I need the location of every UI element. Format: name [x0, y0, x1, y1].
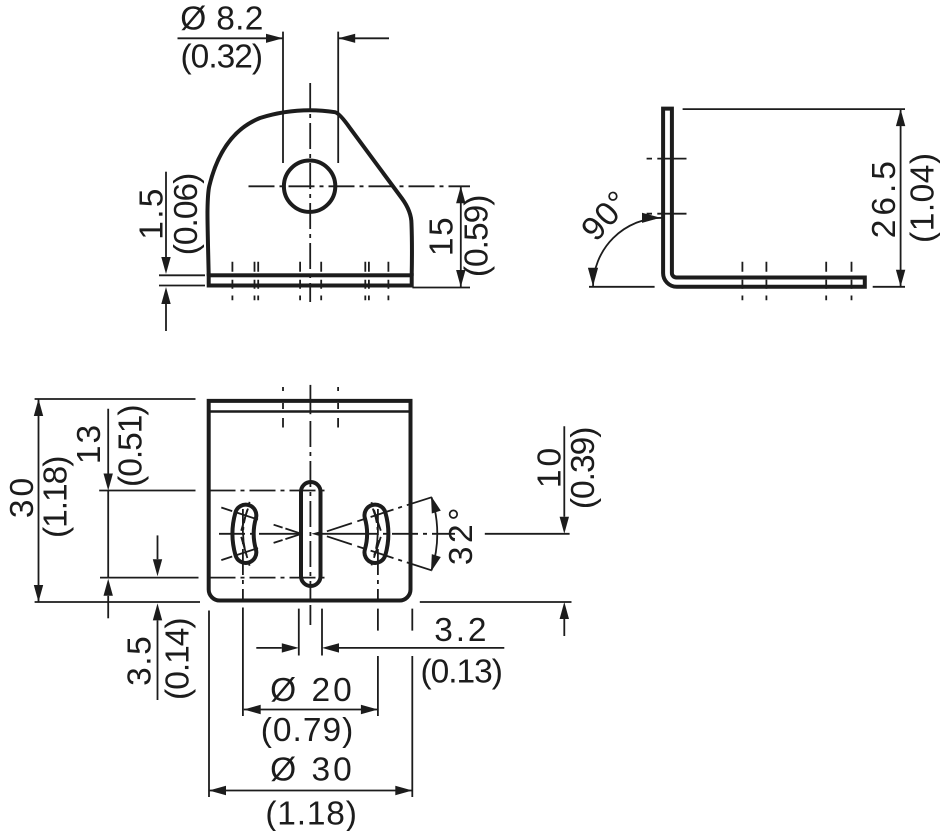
svg-text:(0.51): (0.51)	[113, 405, 150, 487]
svg-text:10: 10	[532, 445, 569, 488]
svg-text:3.2: 3.2	[434, 612, 489, 649]
svg-text:(0.39): (0.39)	[565, 428, 602, 510]
svg-text:(0.59): (0.59)	[459, 196, 496, 278]
svg-text:(0.06): (0.06)	[168, 174, 205, 256]
svg-text:(0.79): (0.79)	[261, 712, 355, 749]
svg-text:1.5: 1.5	[134, 186, 171, 239]
svg-text:(1.04): (1.04)	[905, 152, 940, 243]
svg-text:32°: 32°	[443, 504, 480, 565]
svg-text:(0.14): (0.14)	[160, 618, 197, 700]
svg-text:(1.18): (1.18)	[38, 457, 75, 539]
svg-text:13: 13	[71, 423, 108, 464]
svg-text:Ø 8.2: Ø 8.2	[180, 1, 263, 38]
svg-text:(1.18): (1.18)	[265, 796, 357, 831]
svg-text:(0.13): (0.13)	[420, 653, 502, 690]
svg-text:30: 30	[4, 475, 41, 518]
svg-text:26.5: 26.5	[866, 157, 903, 238]
svg-text:Ø 30: Ø 30	[270, 751, 355, 788]
svg-text:Ø 20: Ø 20	[270, 672, 355, 709]
svg-text:15: 15	[424, 216, 461, 256]
svg-text:3.5: 3.5	[122, 635, 159, 686]
svg-text:(0.32): (0.32)	[181, 39, 263, 76]
